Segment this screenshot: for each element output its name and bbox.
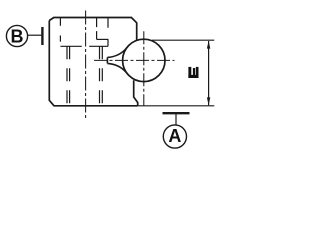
svg-text:A: A [168,126,181,146]
svg-text:B: B [11,27,24,47]
